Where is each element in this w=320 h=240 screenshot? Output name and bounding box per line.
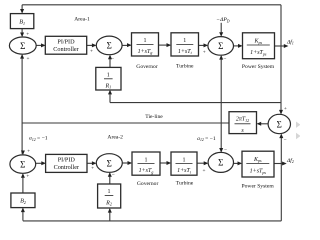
svg-text:+: + (203, 50, 206, 56)
svg-text:1: 1 (108, 189, 111, 195)
svg-text:−: − (112, 172, 115, 178)
svg-text:1: 1 (183, 157, 186, 163)
svg-text:+: + (26, 32, 29, 38)
svg-text:a12 = −1: a12 = −1 (29, 136, 48, 142)
svg-text:+: + (27, 56, 30, 62)
svg-text:2πT12: 2πT12 (236, 116, 249, 122)
svg-text:+: + (26, 173, 29, 179)
svg-text:1: 1 (107, 72, 110, 78)
svg-text:Σ: Σ (218, 41, 223, 51)
svg-text:1+sTg: 1+sTg (139, 168, 154, 174)
svg-text:Kps: Kps (253, 157, 262, 163)
svg-text:1: 1 (145, 157, 148, 163)
svg-text:PI/PID: PI/PID (58, 156, 76, 163)
svg-text:+: + (91, 166, 94, 172)
svg-text:Governor: Governor (136, 64, 158, 70)
svg-text:R2: R2 (105, 200, 112, 206)
svg-text:−: − (284, 138, 287, 144)
svg-text:Kps: Kps (254, 39, 263, 45)
svg-text:Σ: Σ (20, 159, 25, 169)
svg-text:Controller: Controller (53, 46, 78, 53)
svg-text:1+sTg: 1+sTg (138, 49, 153, 55)
svg-text:Σ: Σ (107, 41, 112, 51)
svg-text:Turbine: Turbine (176, 181, 194, 187)
svg-text:Turbine: Turbine (176, 64, 194, 70)
svg-text:1+sTt: 1+sTt (177, 168, 192, 174)
svg-text:Governor: Governor (137, 181, 159, 187)
svg-text:+: + (27, 149, 30, 155)
svg-text:1+sTps: 1+sTps (250, 169, 267, 175)
svg-text:1: 1 (144, 38, 147, 44)
svg-text:1+sTt: 1+sTt (178, 49, 193, 55)
svg-text:Σ: Σ (218, 158, 223, 168)
svg-text:1+sTps: 1+sTps (250, 50, 267, 56)
svg-text:Σ: Σ (107, 158, 112, 168)
svg-text:+: + (284, 106, 287, 112)
svg-text:+: + (90, 48, 93, 54)
svg-text:+: + (203, 168, 206, 174)
svg-text:Power System: Power System (242, 64, 275, 70)
svg-text:Tie-line: Tie-line (145, 114, 163, 120)
svg-text:Σ: Σ (277, 119, 282, 129)
svg-text:Σ: Σ (20, 41, 25, 51)
svg-text:R1: R1 (104, 83, 111, 89)
svg-text:1: 1 (183, 38, 186, 44)
svg-text:−: − (111, 57, 114, 63)
svg-text:Power System: Power System (242, 183, 275, 189)
svg-text:Area-2: Area-2 (107, 134, 123, 140)
svg-text:−: − (224, 147, 227, 153)
svg-text:PI/PID: PI/PID (57, 38, 75, 45)
svg-text:−: − (224, 57, 227, 63)
svg-text:Controller: Controller (54, 164, 79, 171)
svg-text:Area-1: Area-1 (74, 16, 90, 22)
